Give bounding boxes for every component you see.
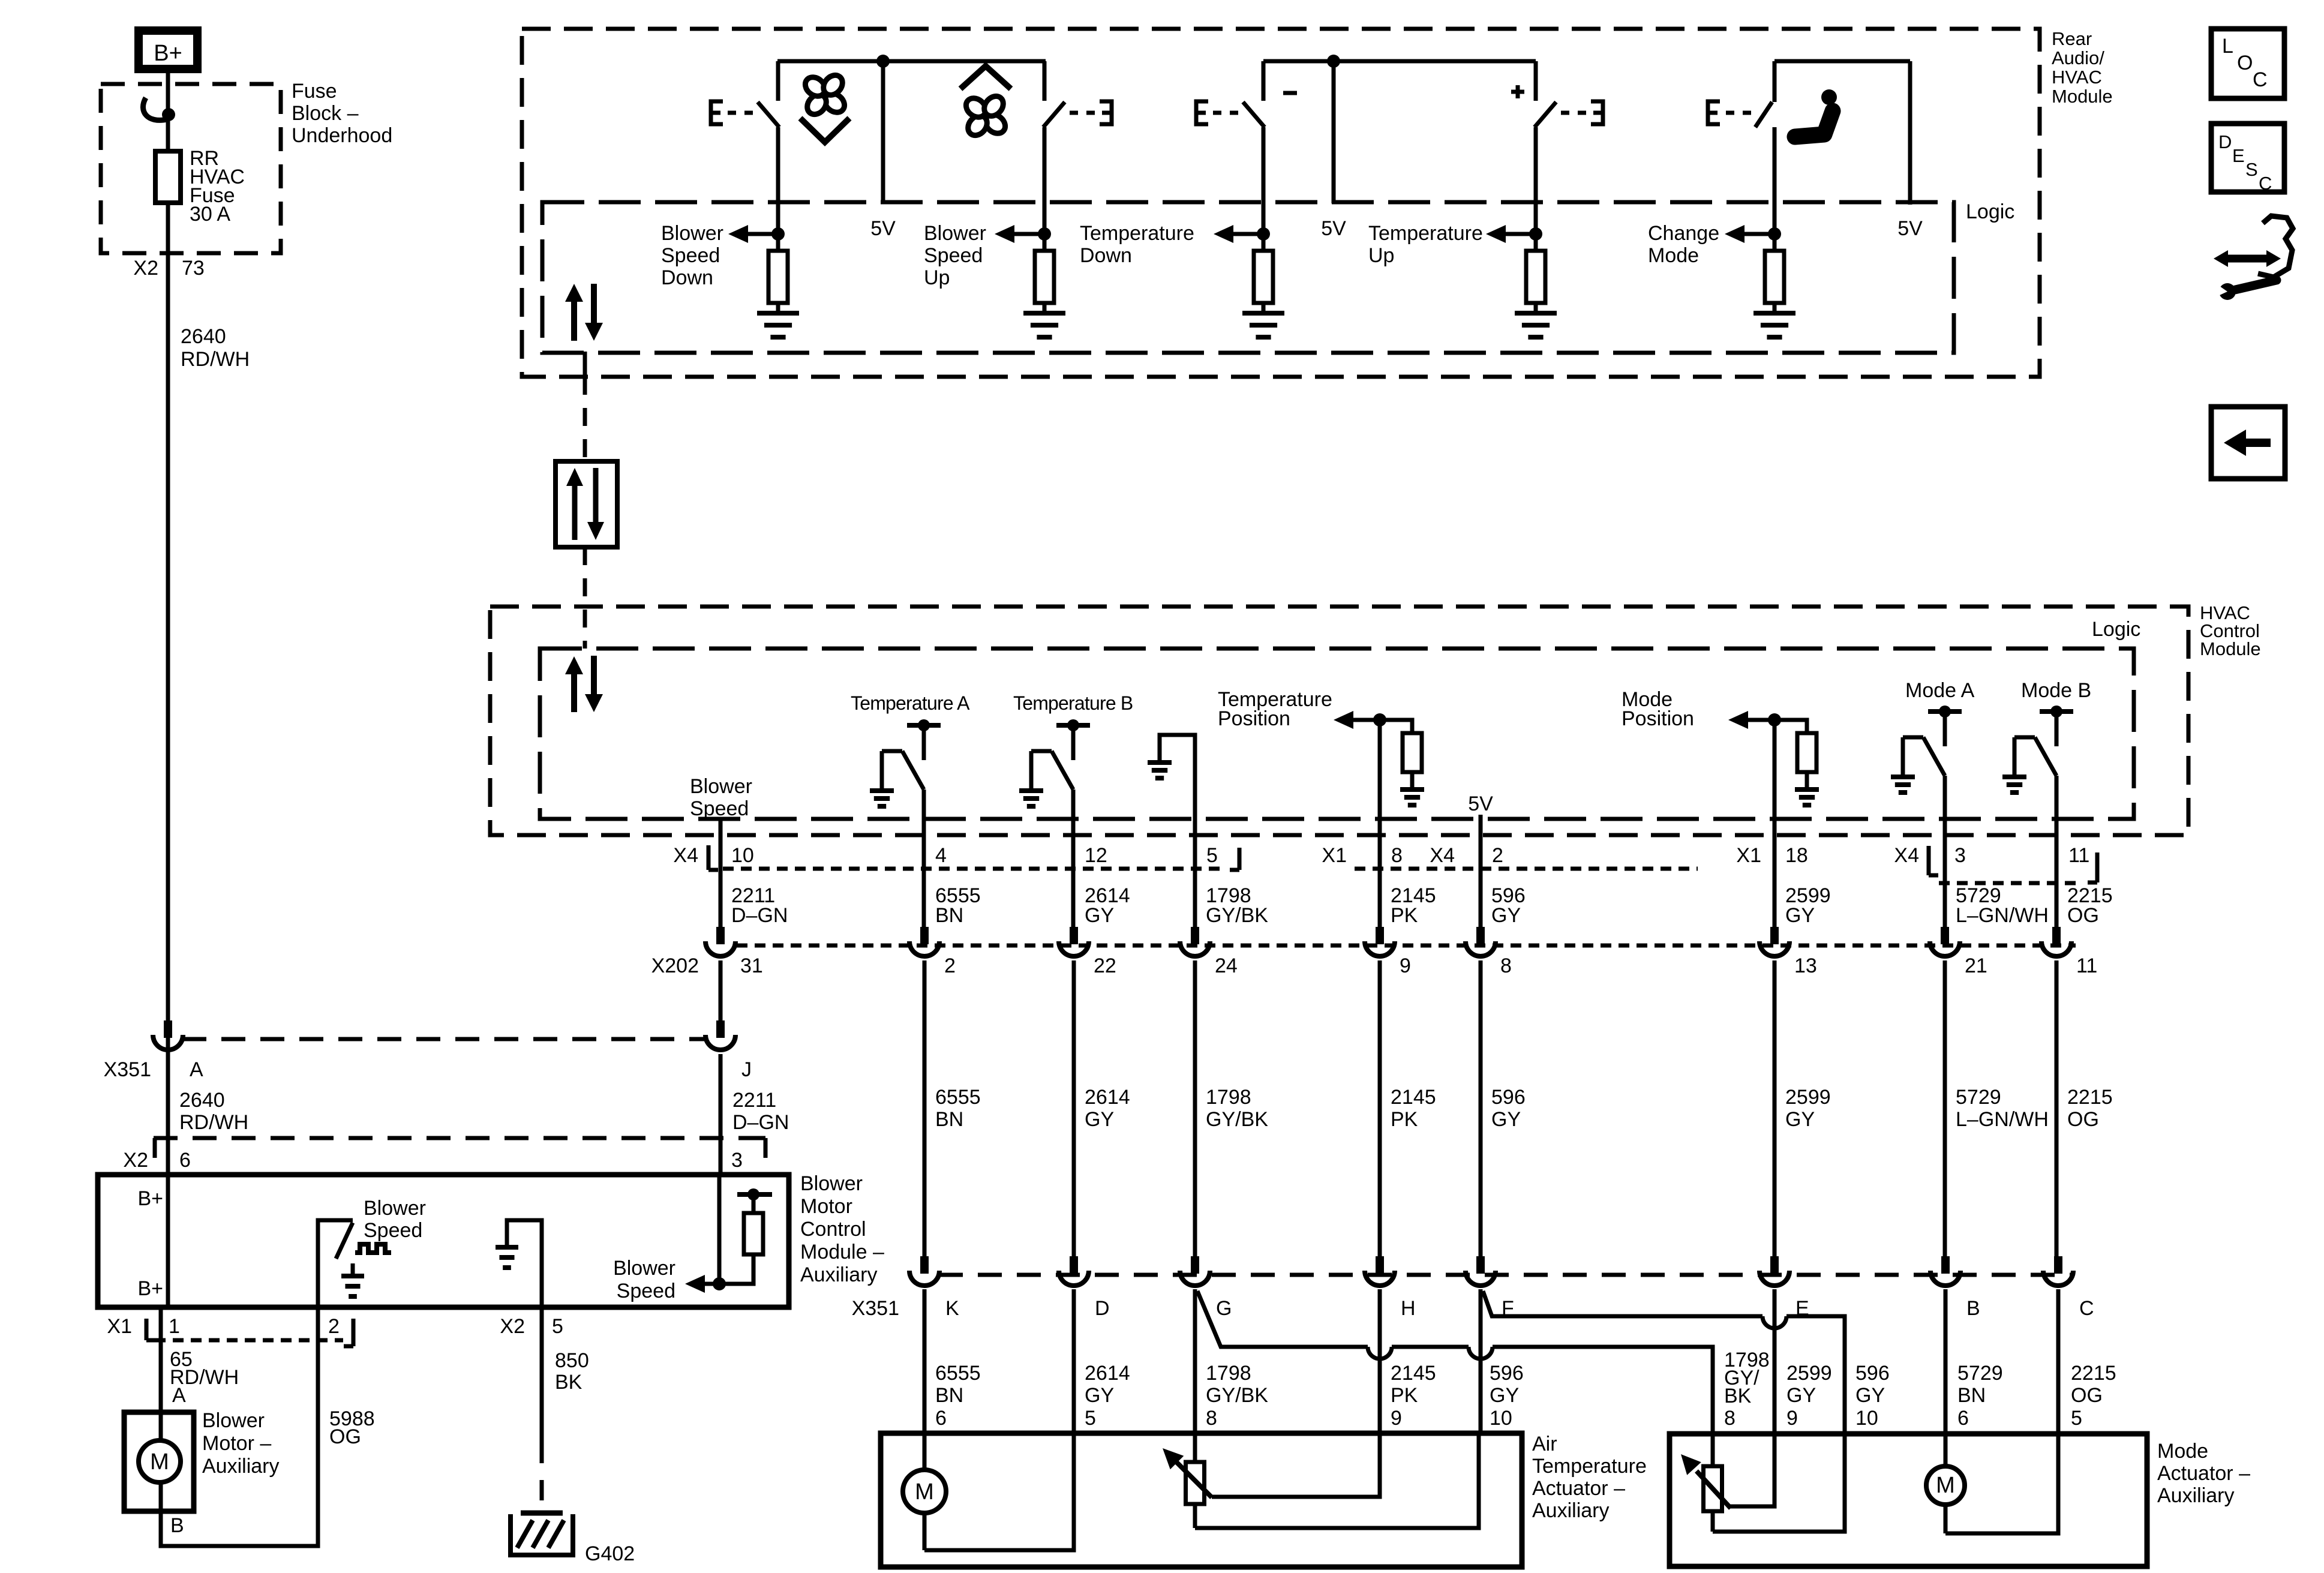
svg-text:2145: 2145 <box>1391 1086 1436 1109</box>
svg-text:J: J <box>741 1058 752 1081</box>
svg-text:1798: 1798 <box>1206 1086 1251 1109</box>
svg-text:Change: Change <box>1648 222 1719 245</box>
svg-text:GY: GY <box>1785 904 1815 927</box>
svg-text:X2: X2 <box>133 257 158 280</box>
svg-text:Logic: Logic <box>1966 200 2014 223</box>
svg-text:GY: GY <box>1490 1384 1519 1407</box>
svg-text:5729: 5729 <box>1957 1362 2003 1385</box>
svg-text:D: D <box>1095 1297 1110 1320</box>
svg-text:8: 8 <box>1500 954 1512 977</box>
svg-text:11: 11 <box>2068 844 2089 867</box>
svg-text:Temperature: Temperature <box>1532 1455 1647 1478</box>
svg-text:H: H <box>1401 1297 1416 1320</box>
svg-text:Down: Down <box>1080 244 1132 267</box>
svg-text:Blower: Blower <box>924 222 986 245</box>
svg-text:5V: 5V <box>870 217 896 240</box>
svg-text:GY: GY <box>1855 1384 1885 1407</box>
svg-text:Actuator –: Actuator – <box>2157 1462 2250 1485</box>
svg-text:Mode B: Mode B <box>2021 679 2091 702</box>
svg-text:Module: Module <box>2052 86 2113 107</box>
svg-text:2614: 2614 <box>1085 1362 1130 1385</box>
svg-text:Auxiliary: Auxiliary <box>800 1263 877 1286</box>
svg-text:Position: Position <box>1218 707 1290 730</box>
svg-text:X351: X351 <box>852 1297 899 1320</box>
svg-text:D–GN: D–GN <box>732 1111 789 1134</box>
svg-text:Temperature B: Temperature B <box>1013 692 1133 714</box>
svg-text:Up: Up <box>924 266 950 289</box>
svg-text:M: M <box>150 1449 169 1475</box>
svg-text:2640: 2640 <box>179 1089 225 1112</box>
svg-text:8: 8 <box>1391 844 1403 867</box>
svg-text:10: 10 <box>1490 1407 1512 1430</box>
svg-text:596: 596 <box>1490 1362 1524 1385</box>
svg-text:GY: GY <box>1491 904 1521 927</box>
svg-text:5: 5 <box>1085 1407 1096 1430</box>
svg-text:GY/BK: GY/BK <box>1206 1108 1268 1131</box>
svg-text:9: 9 <box>1391 1407 1402 1430</box>
svg-text:PK: PK <box>1391 1384 1418 1407</box>
svg-text:GY: GY <box>1085 1384 1114 1407</box>
svg-text:X4: X4 <box>1894 844 1919 867</box>
svg-text:Audio/: Audio/ <box>2052 47 2104 68</box>
svg-text:2215: 2215 <box>2067 1086 2113 1109</box>
svg-text:GY/BK: GY/BK <box>1206 904 1268 927</box>
svg-text:4: 4 <box>935 844 947 867</box>
svg-text:1798: 1798 <box>1206 1362 1251 1385</box>
svg-text:3: 3 <box>731 1149 743 1172</box>
svg-text:GY/BK: GY/BK <box>1206 1384 1268 1407</box>
svg-text:3: 3 <box>1954 844 1966 867</box>
svg-text:1: 1 <box>169 1315 180 1338</box>
svg-text:Temperature A: Temperature A <box>851 692 970 714</box>
svg-text:6: 6 <box>935 1407 947 1430</box>
svg-text:HVAC: HVAC <box>2052 67 2102 88</box>
svg-text:21: 21 <box>1965 954 1987 977</box>
svg-text:GY: GY <box>1491 1108 1521 1131</box>
svg-text:Motor: Motor <box>800 1195 852 1218</box>
svg-text:Temperature: Temperature <box>1080 222 1194 245</box>
svg-text:Block –: Block – <box>292 102 359 125</box>
svg-text:Mode: Mode <box>1648 244 1699 267</box>
svg-text:24: 24 <box>1215 954 1238 977</box>
svg-text:C: C <box>2253 68 2268 91</box>
svg-text:Mode: Mode <box>2157 1440 2208 1463</box>
svg-text:BN: BN <box>935 1108 963 1131</box>
svg-text:8: 8 <box>1206 1407 1217 1430</box>
svg-text:Blower: Blower <box>202 1409 265 1432</box>
svg-text:10: 10 <box>731 844 754 867</box>
svg-text:B+: B+ <box>137 1187 163 1210</box>
svg-text:GY: GY <box>1085 1108 1114 1131</box>
svg-text:5: 5 <box>552 1315 563 1338</box>
svg-text:OG: OG <box>2067 1108 2099 1131</box>
svg-text:PK: PK <box>1391 904 1418 927</box>
svg-text:850: 850 <box>555 1349 589 1372</box>
svg-text:Down: Down <box>661 266 713 289</box>
svg-text:A: A <box>190 1058 203 1081</box>
svg-text:596: 596 <box>1491 1086 1526 1109</box>
svg-text:Speed: Speed <box>661 244 720 267</box>
svg-text:Auxiliary: Auxiliary <box>202 1455 279 1478</box>
svg-text:2: 2 <box>1492 844 1503 867</box>
svg-text:B+: B+ <box>137 1277 163 1300</box>
svg-text:X4: X4 <box>673 844 698 867</box>
svg-text:Temperature: Temperature <box>1368 222 1483 245</box>
svg-text:5: 5 <box>1206 844 1218 867</box>
svg-text:GY: GY <box>1785 1108 1815 1131</box>
svg-text:Mode A: Mode A <box>1905 679 1975 702</box>
svg-text:RD/WH: RD/WH <box>179 1111 248 1134</box>
svg-text:Speed: Speed <box>364 1219 422 1242</box>
svg-text:2215: 2215 <box>2071 1362 2116 1385</box>
svg-text:9: 9 <box>1400 954 1411 977</box>
svg-text:Air: Air <box>1532 1433 1557 1455</box>
svg-text:9: 9 <box>1786 1407 1798 1430</box>
svg-text:2599: 2599 <box>1785 1086 1831 1109</box>
svg-text:5V: 5V <box>1897 217 1923 240</box>
svg-text:B: B <box>170 1514 184 1537</box>
svg-text:L: L <box>2222 35 2233 58</box>
svg-text:2: 2 <box>944 954 956 977</box>
svg-text:5V: 5V <box>1321 217 1346 240</box>
svg-text:L–GN/WH: L–GN/WH <box>1956 1108 2049 1131</box>
svg-text:5V: 5V <box>1468 792 1493 815</box>
svg-text:73: 73 <box>182 257 205 280</box>
svg-text:Blower: Blower <box>613 1257 675 1280</box>
svg-text:Position: Position <box>1622 707 1694 730</box>
svg-text:Auxiliary: Auxiliary <box>1532 1499 1609 1522</box>
svg-text:Blower: Blower <box>690 775 752 798</box>
svg-text:10: 10 <box>1855 1407 1878 1430</box>
svg-text:X1: X1 <box>1322 844 1347 867</box>
svg-text:E: E <box>2232 145 2245 166</box>
svg-text:BN: BN <box>1957 1384 1986 1407</box>
svg-text:B+: B+ <box>154 41 182 66</box>
svg-text:596: 596 <box>1855 1362 1890 1385</box>
svg-text:OG: OG <box>2067 904 2099 927</box>
svg-text:X2: X2 <box>123 1149 148 1172</box>
svg-text:M: M <box>915 1479 934 1505</box>
svg-text:G402: G402 <box>585 1542 635 1565</box>
svg-text:G: G <box>1216 1297 1232 1320</box>
svg-text:OG: OG <box>2071 1384 2103 1407</box>
svg-text:S: S <box>2245 159 2258 180</box>
svg-text:X202: X202 <box>651 954 699 977</box>
svg-text:12: 12 <box>1085 844 1107 867</box>
svg-text:OG: OG <box>329 1425 361 1448</box>
svg-text:5729: 5729 <box>1956 1086 2001 1109</box>
svg-text:X2: X2 <box>500 1315 525 1338</box>
svg-text:18: 18 <box>1785 844 1808 867</box>
svg-text:D–GN: D–GN <box>731 904 788 927</box>
svg-text:2614: 2614 <box>1085 1086 1130 1109</box>
svg-text:31: 31 <box>740 954 763 977</box>
svg-text:BK: BK <box>555 1371 582 1394</box>
svg-text:30 A: 30 A <box>190 203 230 226</box>
svg-text:2640: 2640 <box>181 325 226 348</box>
svg-text:6555: 6555 <box>935 1086 981 1109</box>
svg-text:O: O <box>2237 52 2253 74</box>
svg-text:A: A <box>172 1384 186 1407</box>
svg-text:M: M <box>1936 1473 1955 1498</box>
svg-text:BK: BK <box>1724 1385 1752 1407</box>
svg-text:22: 22 <box>1094 954 1116 977</box>
svg-text:Blower: Blower <box>661 222 723 245</box>
svg-text:L–GN/WH: L–GN/WH <box>1956 904 2049 927</box>
svg-text:2211: 2211 <box>732 1089 776 1112</box>
svg-text:Module: Module <box>2200 638 2261 659</box>
svg-text:2599: 2599 <box>1786 1362 1832 1385</box>
svg-text:B: B <box>1966 1297 1980 1320</box>
svg-text:D: D <box>2218 131 2232 152</box>
svg-text:X1: X1 <box>1736 844 1761 867</box>
svg-text:Rear: Rear <box>2052 28 2092 49</box>
svg-text:Actuator –: Actuator – <box>1532 1477 1625 1500</box>
svg-text:5: 5 <box>2071 1407 2082 1430</box>
svg-text:2145: 2145 <box>1391 1362 1436 1385</box>
svg-text:X4: X4 <box>1430 844 1455 867</box>
svg-text:GY: GY <box>1786 1384 1816 1407</box>
svg-text:X1: X1 <box>107 1315 132 1338</box>
svg-text:Fuse: Fuse <box>292 80 337 103</box>
svg-text:Control: Control <box>800 1218 866 1241</box>
svg-text:BN: BN <box>935 904 963 927</box>
svg-text:Blower: Blower <box>800 1172 863 1195</box>
svg-text:Module –: Module – <box>800 1241 884 1263</box>
svg-text:Auxiliary: Auxiliary <box>2157 1484 2234 1507</box>
svg-text:8: 8 <box>1724 1407 1736 1430</box>
svg-text:Underhood: Underhood <box>292 124 392 147</box>
svg-text:C: C <box>2259 173 2272 194</box>
svg-text:11: 11 <box>2076 954 2097 977</box>
svg-text:13: 13 <box>1794 954 1817 977</box>
svg-text:X351: X351 <box>104 1058 151 1081</box>
svg-text:6555: 6555 <box>935 1362 981 1385</box>
svg-text:6: 6 <box>179 1149 191 1172</box>
svg-text:Up: Up <box>1368 244 1394 267</box>
svg-text:PK: PK <box>1391 1108 1418 1131</box>
svg-text:Motor –: Motor – <box>202 1432 271 1455</box>
svg-text:BN: BN <box>935 1384 963 1407</box>
svg-text:C: C <box>2079 1297 2094 1320</box>
svg-text:Speed: Speed <box>617 1280 675 1302</box>
svg-text:2: 2 <box>328 1315 340 1338</box>
svg-text:RD/WH: RD/WH <box>181 348 250 371</box>
svg-text:Speed: Speed <box>924 244 983 267</box>
svg-text:Speed: Speed <box>690 797 749 820</box>
svg-text:Blower: Blower <box>364 1197 426 1220</box>
svg-text:GY: GY <box>1085 904 1114 927</box>
svg-text:K: K <box>945 1297 959 1320</box>
svg-text:Logic: Logic <box>2092 618 2140 641</box>
svg-text:6: 6 <box>1957 1407 1969 1430</box>
